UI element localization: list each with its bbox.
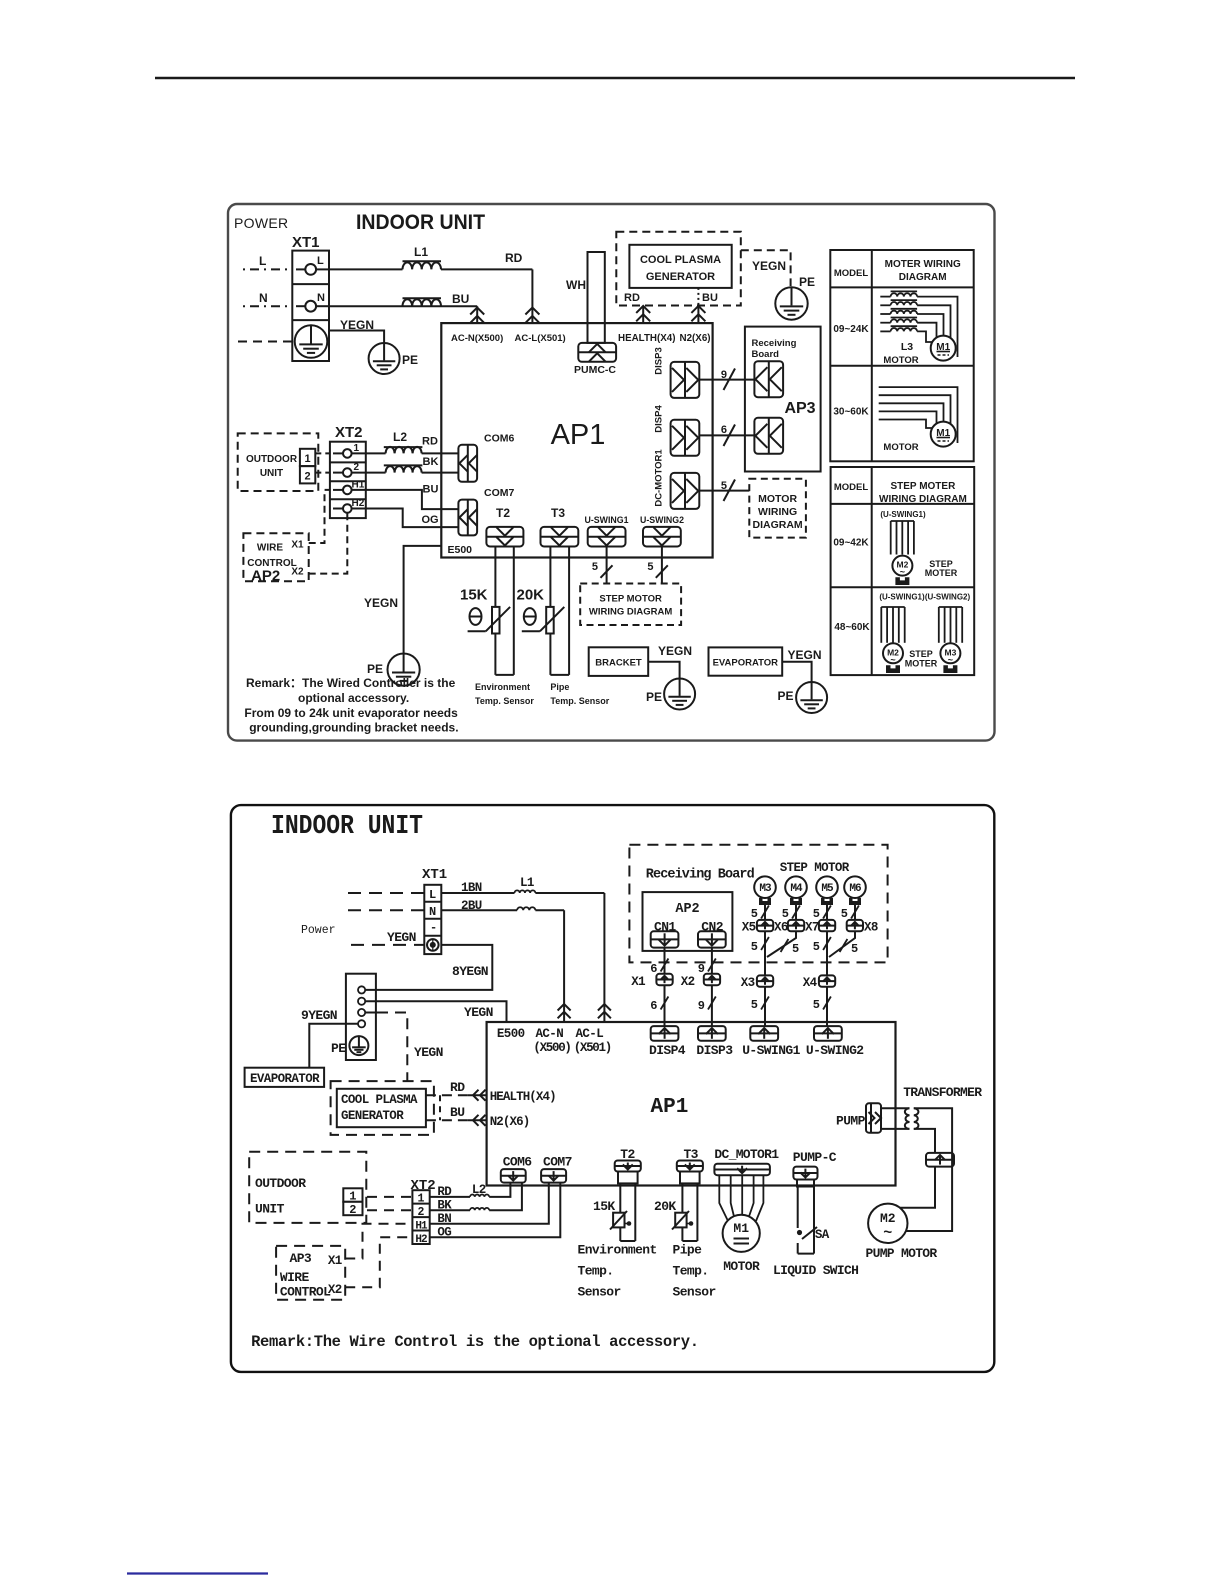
connector U-SWING2 (bottom) [814, 1026, 842, 1041]
receiving board connector 1 [754, 361, 783, 397]
svg-text:AP3: AP3 [784, 400, 815, 417]
svg-text:YEGN: YEGN [387, 930, 416, 945]
svg-text:Remark：The Wired Controller is: Remark：The Wired Controller is the [246, 676, 456, 690]
dashed YEGN to PE (plasma) [741, 250, 791, 286]
svg-text:WIRE: WIRE [257, 543, 283, 554]
svg-text:X1: X1 [631, 975, 645, 989]
svg-text:N: N [259, 291, 268, 305]
svg-text:MOTER: MOTER [925, 568, 958, 578]
svg-text:YEGN: YEGN [788, 648, 822, 662]
step motor M2 (09~42K) [892, 556, 912, 576]
transformer connector [926, 1153, 954, 1167]
step motor wiring diagram dashed box [580, 584, 681, 626]
connector U-SWING1 (bottom) [750, 1026, 778, 1041]
svg-text:PE: PE [367, 662, 383, 676]
svg-text:From 09 to 24k unit evaporator: From 09 to 24k unit evaporator needs [244, 706, 458, 720]
receiving board connector 2 [754, 418, 783, 454]
svg-text:DIAGRAM: DIAGRAM [899, 272, 947, 283]
svg-text:N: N [429, 905, 436, 919]
wire BU XT2-COM7 [352, 490, 459, 509]
svg-text:Temp.: Temp. [578, 1264, 614, 1279]
XT2 terminal 2 [333, 472, 343, 474]
outdoor unit dashed box [238, 433, 319, 491]
motor M1 (bottom) [723, 1215, 760, 1252]
svg-text:PUMP MOTOR: PUMP MOTOR [866, 1246, 938, 1261]
svg-text:RD: RD [505, 251, 523, 265]
svg-text:09~24K: 09~24K [833, 324, 869, 335]
wire CN1-X1 (6) [664, 948, 666, 974]
svg-text:DISP4: DISP4 [654, 405, 665, 433]
T3 sensor wires [681, 1183, 683, 1241]
svg-text:AP2: AP2 [675, 902, 699, 917]
wire HEALTH(X4) riser [642, 306, 644, 324]
step motor 48~60K bundle 2 [939, 606, 962, 608]
svg-text:COOL PLASMA: COOL PLASMA [640, 254, 721, 266]
svg-text:XT1: XT1 [422, 867, 447, 883]
XT2 terminal 1 [333, 452, 343, 454]
outdoor terminal 1 [300, 449, 315, 466]
svg-text:30~60K: 30~60K [833, 407, 869, 418]
svg-text:1: 1 [418, 1193, 425, 1206]
dashed wire outdoor 2 to XT2 [367, 1209, 412, 1211]
XT2 terminal H1 [333, 489, 343, 491]
svg-text:GENERATOR: GENERATOR [341, 1109, 404, 1123]
svg-text:Pipe: Pipe [550, 682, 569, 692]
svg-text:~: ~ [883, 1225, 892, 1242]
wire X5 down (5) [764, 931, 766, 975]
svg-text:WH: WH [566, 278, 586, 292]
wire U-SWING1 down (5) [606, 547, 608, 584]
svg-text:AC-L(X501): AC-L(X501) [515, 333, 566, 344]
svg-text:grounding,grounding bracket ne: grounding,grounding bracket needs. [249, 721, 458, 735]
svg-text:WIRE: WIRE [280, 1270, 310, 1285]
svg-text:09~42K: 09~42K [833, 538, 869, 549]
dashed wire outdoor1-XT2 [315, 452, 330, 454]
svg-text:X2: X2 [681, 975, 695, 989]
dashed wire X1 to H1 [345, 1224, 412, 1259]
motor diagram 30~60K wires [879, 387, 958, 443]
svg-text:OUTDOOR: OUTDOOR [255, 1176, 306, 1191]
svg-text:RD: RD [422, 436, 438, 448]
svg-text:AC-N(X500): AC-N(X500) [451, 333, 503, 344]
svg-text:PE: PE [331, 1041, 346, 1056]
svg-text:STEP MOTOR: STEP MOTOR [780, 861, 850, 875]
svg-text:E500: E500 [448, 544, 473, 556]
step motor M6 [844, 876, 866, 898]
svg-text:AC-N: AC-N [536, 1027, 564, 1041]
svg-text:MODEL: MODEL [834, 482, 869, 493]
svg-text:Receiving: Receiving [752, 338, 797, 349]
wire control AP3 dashed box [276, 1246, 345, 1300]
svg-text:YEGN: YEGN [414, 1045, 443, 1060]
svg-text:9: 9 [721, 369, 727, 381]
step motor M3 [754, 876, 776, 898]
svg-text:L1: L1 [520, 876, 534, 890]
svg-text:9YEGN: 9YEGN [301, 1008, 337, 1023]
svg-text:N: N [317, 292, 325, 304]
wire X2 to DISP3 (9) [711, 985, 713, 1026]
svg-text:YEGN: YEGN [464, 1005, 493, 1020]
wire bracket YEGN [648, 662, 679, 679]
evaporator box (bottom) [245, 1068, 325, 1087]
step motor wiring table frame [831, 467, 975, 675]
svg-text:DISP3: DISP3 [696, 1043, 733, 1058]
svg-text:INDOOR UNIT: INDOOR UNIT [356, 211, 485, 234]
wire M5-X7 (5) [826, 905, 828, 920]
T2 sensor wires [619, 1183, 621, 1241]
wire N to AC-N [329, 305, 477, 307]
bottom blue rule [127, 1572, 268, 1574]
wire X7 down (5) [826, 931, 828, 975]
thermistor T3 (bottom) [675, 1213, 686, 1228]
dotted BU stub [697, 288, 699, 306]
panel 1 border (top wiring diagram) [228, 204, 995, 741]
DC motor wires [719, 1175, 728, 1221]
svg-text:X4: X4 [803, 976, 818, 990]
svg-text:WIRING DIAGRAM: WIRING DIAGRAM [879, 494, 967, 505]
svg-text:20K: 20K [517, 587, 545, 604]
outdoor unit dashed box (bottom) [249, 1152, 366, 1223]
svg-text:H1: H1 [415, 1220, 428, 1232]
svg-text:20K: 20K [654, 1199, 676, 1214]
svg-text:BU: BU [423, 484, 439, 496]
svg-text:COOL PLASMA: COOL PLASMA [341, 1093, 418, 1107]
liquid switch wires [797, 1187, 799, 1229]
wire U-SWING2 down (5) [661, 547, 663, 584]
outdoor terminal 2 [300, 466, 315, 483]
svg-text:optional accessory.: optional accessory. [298, 691, 409, 705]
wire RD XT2-COM6 [352, 452, 386, 454]
transformer secondary wires [906, 1108, 952, 1231]
svg-text:U-SWING1: U-SWING1 [585, 515, 629, 525]
cool plasma generator dashed box (bottom) [331, 1081, 434, 1135]
step motor 48~60K bundle 1 [881, 606, 904, 608]
svg-text:5: 5 [721, 480, 727, 492]
svg-text:M4: M4 [790, 883, 803, 895]
svg-text:BU: BU [452, 292, 469, 306]
svg-text:Temp. Sensor: Temp. Sensor [550, 696, 609, 706]
svg-text:X2: X2 [328, 1283, 342, 1297]
thermistor T3 sensor [549, 547, 551, 675]
svg-text:M2: M2 [880, 1211, 896, 1226]
wire connector to pump motor [900, 1167, 935, 1208]
svg-text:X1: X1 [291, 540, 304, 551]
svg-text:COM6: COM6 [484, 433, 514, 445]
svg-text:CONTROL: CONTROL [280, 1285, 331, 1300]
svg-text:COM6: COM6 [503, 1155, 533, 1170]
inductor L2 second [384, 464, 423, 466]
svg-text:AP2: AP2 [251, 568, 280, 585]
svg-text:1: 1 [354, 443, 360, 454]
svg-text:HEALTH(X4): HEALTH(X4) [490, 1090, 556, 1104]
step motor M5 [816, 876, 838, 898]
svg-text:48~60K: 48~60K [834, 622, 870, 633]
svg-text:Pipe: Pipe [673, 1243, 703, 1258]
svg-text:L1: L1 [414, 245, 428, 259]
svg-text:STEP MOTER: STEP MOTER [890, 481, 956, 492]
motor M1 (30~60K) [931, 422, 956, 447]
svg-text:STEP MOTOR: STEP MOTOR [599, 594, 662, 605]
svg-text:DISP3: DISP3 [654, 347, 665, 374]
dashed wire X1-H1 [309, 490, 330, 543]
svg-text:5: 5 [592, 561, 598, 573]
inductor L1b (bottom) [517, 907, 535, 910]
svg-text:Board: Board [752, 349, 780, 360]
wire DISP4 to AP3 (6) [699, 434, 754, 436]
XT1 ground symbol (bottom) [427, 939, 439, 951]
svg-text:Sensor: Sensor [578, 1285, 621, 1300]
svg-text:(X500): (X500) [533, 1041, 570, 1055]
wire L to L1 to AC-L [329, 268, 403, 270]
wire OG XT2-COM7 [352, 509, 459, 528]
dashed wire outdoor 1 to XT2 [367, 1196, 412, 1198]
svg-text:TRANSFORMER: TRANSFORMER [903, 1085, 982, 1100]
motor wiring table frame [830, 250, 973, 461]
evaporator box [709, 647, 783, 675]
svg-text:2: 2 [304, 471, 310, 483]
svg-text:M5: M5 [821, 883, 834, 895]
step motor connector black (M2 48~60K) [886, 665, 900, 673]
wire evaporator YEGN [782, 662, 811, 682]
svg-text:15K: 15K [460, 587, 488, 604]
svg-text:5: 5 [751, 940, 758, 954]
dashed wire outdoor2-XT2 [315, 472, 330, 474]
wire DC-MOTOR1 (5) [699, 490, 749, 492]
XT2 terminal H2 [333, 508, 343, 510]
svg-text:5: 5 [851, 942, 858, 956]
svg-text:L: L [259, 254, 266, 268]
svg-text:Temp.: Temp. [673, 1264, 709, 1279]
wire CN2-X2 (9) [711, 948, 713, 974]
svg-text:X5: X5 [742, 921, 756, 935]
svg-text:AP1: AP1 [651, 1096, 689, 1119]
svg-text:Temp. Sensor: Temp. Sensor [475, 696, 534, 706]
connector DISP3 (bottom) [698, 1026, 726, 1041]
dashed tie RD-BU [439, 1095, 441, 1120]
svg-text:XT2: XT2 [335, 424, 363, 441]
wire N2(X6) riser [697, 306, 699, 324]
svg-text:6: 6 [721, 424, 727, 436]
svg-text:5: 5 [751, 907, 758, 921]
cool plasma generator inner box [629, 245, 731, 288]
svg-text:YEGN: YEGN [752, 259, 786, 273]
receiving board AP3 box [745, 327, 821, 472]
step motor M2 (48~60K) [883, 643, 903, 663]
svg-text:L2: L2 [472, 1183, 486, 1197]
connector PUMC-C [578, 343, 616, 362]
svg-text:5: 5 [813, 940, 820, 954]
page top rule [155, 77, 1075, 80]
board AP2 box [643, 892, 733, 951]
svg-text:PE: PE [646, 690, 662, 704]
wire 1BN to AC-L [441, 892, 514, 894]
dashed YEGN pin3 to plasma [365, 1012, 377, 1014]
svg-text:COM7: COM7 [484, 487, 514, 499]
switch SA [797, 1230, 802, 1235]
wire M6-X8 (5) [854, 905, 856, 920]
line input PE (dashed) [238, 341, 292, 343]
wire X6 join (5) [767, 931, 796, 957]
panel 2 border (bottom wiring diagram) [231, 805, 994, 1372]
cool plasma generator inner box (bottom) [337, 1089, 426, 1127]
svg-text:OG: OG [422, 514, 439, 526]
cool plasma generator dashed box [616, 232, 741, 306]
svg-text:6: 6 [650, 999, 657, 1013]
svg-text:DISP4: DISP4 [649, 1043, 686, 1058]
svg-text:RD: RD [624, 292, 640, 304]
svg-text:N2(X6): N2(X6) [490, 1115, 530, 1129]
svg-text:L: L [317, 255, 324, 267]
pump motor M2 [868, 1204, 907, 1243]
svg-text:DC_MOTOR1: DC_MOTOR1 [714, 1147, 779, 1162]
svg-text:U-SWING1: U-SWING1 [742, 1043, 800, 1058]
svg-text:-: - [430, 921, 437, 935]
svg-text:~: ~ [900, 567, 905, 577]
svg-text:2: 2 [349, 1203, 356, 1217]
svg-text:Environment: Environment [578, 1243, 657, 1258]
svg-text:H1: H1 [352, 480, 365, 491]
step motor M4 [785, 876, 807, 898]
svg-text:U-SWING2: U-SWING2 [806, 1043, 864, 1058]
svg-text:LIQUID SWICH: LIQUID SWICH [773, 1263, 858, 1278]
svg-text:AC-L: AC-L [576, 1027, 604, 1041]
svg-text:H2: H2 [415, 1234, 427, 1246]
ground PE (near XT1) [369, 343, 400, 374]
svg-text:2: 2 [418, 1206, 425, 1219]
step motor connector black (09~42K) [895, 577, 909, 585]
svg-text:X1: X1 [328, 1254, 342, 1268]
svg-text:YEGN: YEGN [658, 644, 692, 658]
svg-text:MOTOR: MOTOR [883, 355, 918, 366]
XT1 ground terminal [295, 325, 328, 358]
svg-text:X6: X6 [774, 921, 788, 935]
svg-text:~: ~ [948, 655, 953, 665]
svg-text:UNIT: UNIT [260, 468, 283, 479]
svg-text:COM7: COM7 [543, 1155, 572, 1170]
svg-text:Environment: Environment [475, 682, 530, 692]
wire AC-N drop with arrow [476, 306, 478, 323]
transformer windings [881, 1107, 910, 1109]
svg-text:(X501): (X501) [574, 1041, 611, 1055]
svg-text:MODEL: MODEL [834, 268, 869, 279]
connector COM7 [458, 500, 477, 536]
svg-text:5: 5 [813, 998, 820, 1012]
svg-text:T3: T3 [551, 506, 565, 520]
wire X3 to U-SWING1 (5) [764, 987, 766, 1026]
svg-text:HEALTH(X4): HEALTH(X4) [618, 333, 676, 344]
svg-text:X3: X3 [741, 976, 755, 990]
svg-text:5: 5 [751, 998, 758, 1012]
svg-text:GENERATOR: GENERATOR [646, 271, 715, 283]
svg-text:POWER: POWER [234, 215, 288, 231]
wire AC-L drop with arrow [531, 269, 533, 323]
svg-text:5: 5 [647, 561, 653, 573]
svg-text:(U-SWING1): (U-SWING1) [880, 510, 926, 519]
svg-text:~: ~ [890, 655, 895, 665]
svg-text:PE: PE [778, 689, 794, 703]
svg-text:M6: M6 [849, 883, 861, 895]
svg-text:MOTOR: MOTOR [758, 493, 797, 505]
XT1 terminal L [296, 268, 305, 270]
dashed wire X2 to H2 [345, 1237, 412, 1287]
svg-text:PE: PE [402, 353, 418, 367]
svg-text:L2: L2 [393, 430, 407, 444]
svg-text:BRACKET: BRACKET [595, 658, 642, 669]
svg-text:XT1: XT1 [292, 234, 320, 251]
wire control AP2 dashed box [243, 533, 308, 581]
wire X4 to U-SWING2 (5) [826, 987, 828, 1026]
svg-text:X8: X8 [864, 921, 878, 935]
svg-text:DIAGRAM: DIAGRAM [753, 519, 803, 531]
wire X8 join (5) [829, 931, 855, 957]
svg-text:BU: BU [450, 1105, 464, 1120]
thermistor T2 (bottom) [613, 1213, 624, 1228]
motor M1 (09~24K) [931, 336, 956, 361]
svg-text:PUMP-C: PUMP-C [793, 1150, 837, 1165]
outdoor terminal 1 (bottom) [343, 1188, 362, 1202]
svg-text:M1: M1 [733, 1221, 749, 1236]
svg-text:RD: RD [450, 1080, 465, 1095]
step motor 09~42K wire bundle [891, 520, 914, 522]
svg-text:Sensor: Sensor [673, 1285, 716, 1300]
svg-text:BU: BU [702, 292, 718, 304]
connector COM6 [458, 445, 477, 482]
svg-text:8YEGN: 8YEGN [452, 964, 488, 979]
svg-text:M3: M3 [759, 883, 772, 895]
svg-text:Power: Power [301, 924, 336, 937]
svg-text:2: 2 [354, 462, 360, 473]
wire E500 to PE [404, 546, 442, 654]
svg-text:SA: SA [815, 1228, 830, 1242]
svg-text:1: 1 [304, 453, 310, 465]
thermistor T2 sensor [494, 547, 496, 675]
inductor L2row (BU) [403, 297, 442, 299]
svg-text:5: 5 [792, 942, 799, 956]
svg-text:L: L [429, 888, 436, 902]
svg-text:MOTOR: MOTOR [723, 1259, 760, 1274]
svg-text:9: 9 [698, 999, 705, 1013]
svg-text:WIRING: WIRING [758, 506, 797, 518]
svg-text:5: 5 [841, 907, 848, 921]
svg-text:5: 5 [782, 907, 789, 921]
motor wiring diagram dashed box [749, 479, 806, 538]
svg-text:Remark:The Wire Control is the: Remark:The Wire Control is the optional … [251, 1333, 699, 1351]
svg-text:L3: L3 [901, 341, 913, 353]
svg-text:H2: H2 [352, 498, 365, 509]
svg-text:AP1: AP1 [551, 419, 606, 451]
svg-text:(U-SWING1): (U-SWING1) [879, 593, 925, 602]
svg-text:WIRING DIAGRAM: WIRING DIAGRAM [589, 607, 672, 618]
svg-text:STEP: STEP [909, 649, 933, 659]
motor diagram 09~24K coils and wires [880, 296, 890, 298]
connector DISP4 (bottom) [651, 1026, 679, 1041]
wire M3-X5 (5) [764, 905, 766, 920]
svg-text:DC-MOTOR1: DC-MOTOR1 [654, 449, 665, 507]
outdoor terminal 2 (bottom) [343, 1202, 362, 1215]
svg-text:OUTDOOR: OUTDOOR [246, 454, 298, 465]
step motor M3 (48~60K) [940, 643, 960, 663]
wire 2BU to AC-N [441, 909, 517, 911]
svg-text:E500: E500 [497, 1027, 525, 1041]
svg-text:INDOOR UNIT: INDOOR UNIT [271, 812, 423, 842]
svg-text:MOTER: MOTER [905, 659, 938, 669]
svg-text:T2: T2 [496, 506, 510, 520]
svg-text:X7: X7 [805, 921, 819, 935]
svg-text:U-SWING2: U-SWING2 [640, 515, 684, 525]
svg-text:5: 5 [813, 907, 820, 921]
svg-text:PUMC-C: PUMC-C [574, 364, 616, 376]
svg-text:EVAPORATOR: EVAPORATOR [250, 1072, 320, 1086]
